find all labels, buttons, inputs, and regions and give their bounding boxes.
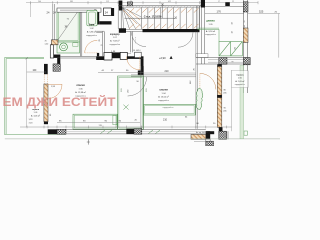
entrance porch walls	[191, 127, 247, 146]
svg-text:70: 70	[45, 41, 47, 43]
wall between bath and bedroom1	[79, 12, 81, 56]
terrace inner line	[26, 59, 28, 127]
plant symbol	[196, 88, 203, 109]
neighbour outline right	[248, 13, 280, 15]
stair walkline with up arrow	[125, 17, 176, 19]
svg-text:Стъл. 17,18/29: Стъл. 17,18/29	[144, 16, 162, 19]
right terrace: pale green band	[240, 66, 244, 139]
terrace south railing	[5, 133, 66, 135]
svg-text:А: 12,88 м²: А: 12,88 м²	[75, 91, 86, 94]
svg-text:А: 3,06 м²: А: 3,06 м²	[31, 114, 40, 117]
svg-text:112: 112	[106, 1, 109, 3]
svg-text:90: 90	[224, 108, 226, 110]
svg-text:А: 7,58 м²: А: 7,58 м²	[110, 40, 120, 43]
svg-text:гардеробна: гардеробна	[86, 35, 98, 37]
svg-text:17: 17	[218, 1, 220, 3]
wardrobe green strip vertical	[118, 76, 144, 129]
svg-text:90: 90	[232, 62, 234, 64]
right terrace inner line	[231, 70, 233, 131]
orange door arc bath	[85, 40, 98, 53]
bedroom1 north wall (double line)	[60, 55, 96, 57]
svg-text:240: 240	[38, 1, 41, 3]
svg-text:гардеробна: гардеробна	[205, 34, 217, 36]
svg-text:А: 2,63 м²: А: 2,63 м²	[235, 80, 244, 83]
left short dimension line	[30, 3, 32, 17]
stairwell right wall (double)	[201, 0, 205, 8]
svg-text:22: 22	[232, 1, 234, 3]
svg-text:24: 24	[105, 10, 109, 14]
svg-text:+2,90: +2,90	[159, 56, 166, 60]
terrace 1.06 label box	[231, 71, 248, 88]
svg-text:385: 385	[70, 1, 73, 3]
brick wall right	[243, 28, 248, 43]
bedroom2 east wall (grey double)	[195, 32, 197, 129]
bedroom1 label	[75, 84, 87, 98]
svg-text:Вх. вр. 90/205: Вх. вр. 90/205	[196, 132, 208, 134]
brick wall mid/end caps	[217, 95, 222, 98]
corridor walls	[101, 32, 103, 57]
svg-text:205: 205	[223, 93, 226, 95]
green rail in front of antre	[197, 27, 219, 29]
svg-text:А: 3,50 м²: А: 3,50 м²	[206, 30, 216, 33]
orange door arc wc	[127, 57, 140, 70]
wardrobe green box bedroom2 bottom	[144, 104, 196, 115]
green planter box lower with jacuzzi circle	[57, 42, 80, 53]
wall (grey double) left of bathroom	[52, 4, 54, 40]
svg-text:тераса: тераса	[236, 74, 244, 76]
T survey mark	[87, 139, 89, 144]
bedroom2 label	[158, 88, 170, 102]
stair left wall stub	[119, 1, 123, 11]
top dimension ticks	[31, 1, 259, 4]
stair top boundary	[118, 5, 202, 7]
svg-text:спалня: спалня	[76, 84, 85, 87]
wc knot walls	[96, 37, 143, 75]
living room west wall	[130, 32, 132, 53]
dim line low	[20, 126, 232, 128]
antre room label	[205, 20, 217, 36]
left mid wall knot	[44, 45, 60, 74]
svg-text:422: 422	[168, 1, 171, 3]
svg-text:1,40: 1,40	[244, 25, 246, 29]
stair winder lines	[122, 7, 141, 29]
bath room label	[86, 24, 98, 37]
svg-text:гардеробна: гардеробна	[109, 44, 121, 46]
svg-text:210: 210	[163, 119, 168, 122]
svg-text:176: 176	[217, 9, 222, 13]
french window green	[219, 42, 242, 56]
svg-text:20: 20	[244, 21, 246, 23]
svg-text:спалня: спалня	[159, 88, 168, 91]
east brick wall of bedroom2 area	[217, 66, 222, 127]
top-right room top edge	[205, 6, 244, 8]
terrace dim 100	[27, 71, 46, 73]
bathtub	[87, 10, 97, 26]
terrace label block	[31, 109, 40, 117]
hall south wall band	[196, 57, 250, 59]
corridor label	[109, 34, 121, 46]
small pier at top dim row	[225, 2, 230, 6]
stair right wall	[196, 6, 198, 30]
green planter box upper	[57, 9, 80, 42]
right wall column (double)	[243, 0, 245, 93]
bathroom north wall band with window	[57, 8, 101, 12]
dim line mid	[57, 122, 140, 124]
bedroom1 door arc	[48, 84, 62, 98]
svg-text:баня: баня	[89, 24, 95, 27]
svg-text:80: 80	[224, 90, 226, 92]
concrete pier right middle	[243, 58, 250, 65]
svg-text:гардеробна: гардеробна	[235, 84, 246, 86]
stair flight diagonals (orange)	[123, 8, 199, 28]
svg-text:гардеробна: гардеробна	[158, 100, 170, 102]
stair bottom wall black	[143, 29, 200, 32]
svg-text:Б1 46/14: Б1 46/14	[133, 50, 140, 52]
concrete pier top right	[243, 2, 248, 12]
svg-text:ЕМ ДЖИ ЕСТЕЙТ: ЕМ ДЖИ ЕСТЕЙТ	[3, 95, 117, 109]
bathroom inner wall L	[96, 12, 99, 24]
bedroom1 west brick wall	[43, 74, 45, 84]
svg-text:525: 525	[259, 9, 264, 13]
top-right interior dimension line	[205, 13, 244, 15]
stair treads	[141, 7, 193, 29]
svg-text:210: 210	[165, 70, 170, 73]
south facade wall band	[48, 129, 206, 135]
svg-text:гардеробна: гардеробна	[163, 107, 175, 109]
terrace west railing (green double)	[4, 57, 6, 135]
top dimension line	[26, 2, 258, 4]
svg-text:тераса: тераса	[32, 109, 40, 111]
svg-text:коридор: коридор	[110, 34, 120, 36]
green X mark	[123, 105, 128, 110]
svg-text:1,40: 1,40	[45, 44, 49, 46]
door box 24	[104, 8, 112, 16]
terrace 1.06 label	[235, 74, 246, 86]
terrace north railing	[5, 56, 44, 58]
staircase	[118, 3, 202, 33]
wardrobe green box bedroom1 bottom	[73, 114, 117, 129]
bottom faint line	[5, 138, 280, 140]
living room door arc left	[132, 32, 147, 47]
door arc to terrace	[200, 73, 216, 89]
bedrooms partition wall	[140, 66, 142, 129]
svg-text:205: 205	[223, 111, 226, 113]
svg-text:дневна: дневна	[206, 20, 215, 22]
black wall bar	[111, 8, 114, 16]
bedroom2 north wall with door	[131, 74, 196, 76]
brick wall stub over corner	[51, 40, 58, 45]
svg-text:А: 5,86 м²: А: 5,86 м²	[87, 30, 97, 33]
svg-text:А: 13,02 м²: А: 13,02 м²	[158, 95, 169, 98]
living room door arc right	[178, 32, 193, 47]
